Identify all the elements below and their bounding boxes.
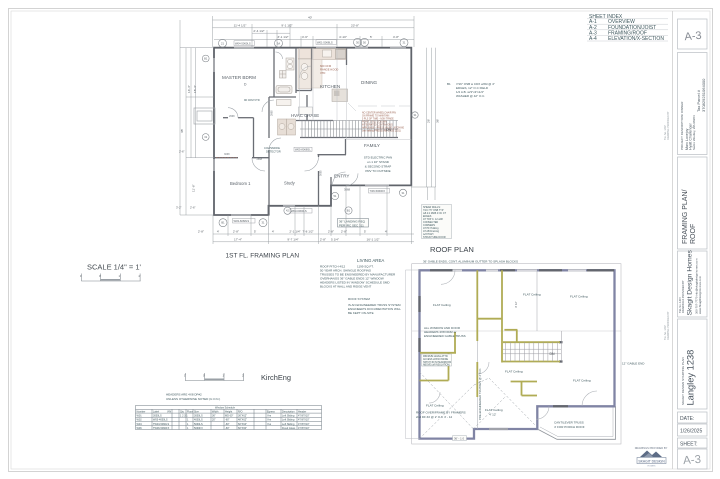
svg-text:SKAGIT DESIGN: SKAGIT DESIGN: [638, 459, 665, 463]
svg-text:HOMES: HOMES: [647, 466, 656, 468]
svg-text:23'-8": 23'-8": [351, 23, 359, 27]
svg-text:APPL BASE - PRESS VALVE LATCHI: APPL BASE - PRESS VALVE LATCHING: [362, 127, 404, 130]
svg-text:4"X8"X10": 4"X8"X10": [298, 419, 310, 422]
svg-text:Fixed Glass: Fixed Glass: [282, 427, 296, 430]
svg-text:BLOCKS AT WALL AND RIDGE VENT: BLOCKS AT WALL AND RIDGE VENT: [320, 285, 372, 289]
svg-text:3068: 3068: [224, 153, 230, 156]
svg-text:NO CENTER WHEELCHAIR PIN: NO CENTER WHEELCHAIR PIN: [362, 112, 396, 115]
svg-text:PRE-ENGINEERED TRUSSES @ 2' O.: PRE-ENGINEERED TRUSSES @ 2' O.C.: [478, 368, 482, 420]
svg-text:Floor: Floor: [187, 410, 193, 413]
svg-text:40': 40': [308, 16, 312, 20]
svg-text:UNLESS OTHERWISE NOTED (U.O.N.: UNLESS OTHERWISE NOTED (U.O.N.): [166, 397, 220, 401]
svg-text:3'-1 1/2": 3'-1 1/2": [277, 35, 288, 39]
svg-text:ACCESS 22X30 INSIDE: ACCESS 22X30 INSIDE: [423, 358, 448, 361]
svg-text:5 1/4": 5 1/4": [331, 237, 339, 241]
svg-text:SKAGIT DESIGN STARTING PLAN: SKAGIT DESIGN STARTING PLAN: [681, 357, 685, 405]
svg-text:3068: 3068: [344, 188, 350, 192]
svg-text:W04-5060LS: W04-5060LS: [235, 41, 251, 45]
svg-text:A-3: A-3: [683, 454, 702, 467]
svg-text:W01: W01: [137, 415, 143, 418]
svg-text:W04: W04: [137, 423, 143, 426]
svg-text:HATCH 30 IN HEADROOM: HATCH 30 IN HEADROOM: [423, 361, 451, 364]
svg-text:ROOF PLAN: ROOF PLAN: [430, 245, 474, 254]
svg-text:26': 26': [427, 119, 431, 123]
svg-text:Number: Number: [137, 410, 146, 413]
svg-text:5060FX: 5060FX: [194, 427, 203, 430]
svg-text:60"X60": 60"X60": [238, 427, 247, 430]
svg-text:7'-8 1/2": 7'-8 1/2": [302, 230, 313, 234]
svg-text:600 CFM: 600 CFM: [320, 64, 332, 68]
svg-text:Header: Header: [298, 410, 306, 413]
svg-text:DRAWING PROVIDED BY: DRAWING PROVIDED BY: [667, 111, 670, 140]
svg-text:ENTRY: ENTRY: [334, 174, 350, 179]
svg-text:11'-4 1/2": 11'-4 1/2": [234, 23, 247, 27]
svg-text:90 CFM VTD: 90 CFM VTD: [244, 98, 260, 102]
svg-text:15'-4": 15'-4": [193, 85, 197, 93]
svg-text:7/06-5060FX: 7/06-5060FX: [370, 189, 386, 193]
svg-text:2'-8": 2'-8": [320, 237, 326, 241]
svg-text:2668: 2668: [270, 110, 273, 116]
svg-text:B1: B1: [221, 221, 225, 225]
svg-text:PRV TO OUTSIDE: PRV TO OUTSIDE: [365, 169, 390, 173]
svg-text:PROJECT DESCRIPTION/ OWNER: PROJECT DESCRIPTION/ OWNER: [680, 101, 684, 150]
svg-text:36' - 1 0: 36' - 1 0: [454, 436, 464, 440]
svg-text:2668: 2668: [257, 158, 263, 161]
svg-text:Label: Label: [153, 410, 160, 413]
svg-text:FLAT Ceiling: FLAT Ceiling: [573, 379, 591, 383]
svg-text:SHEET:: SHEET:: [680, 442, 698, 448]
svg-text:Egress: Egress: [267, 410, 276, 413]
svg-text:VIN: VIN: [167, 410, 171, 413]
svg-text:www.SkagitDesignHomes.com: www.SkagitDesignHomes.com: [698, 275, 702, 314]
svg-text:ELEVATION/X-SECTION: ELEVATION/X-SECTION: [608, 36, 664, 42]
svg-text:SCALE 1/4" = 1': SCALE 1/4" = 1': [87, 263, 141, 272]
svg-text:2'-8": 2'-8": [341, 230, 347, 234]
svg-text:DN: DN: [550, 352, 556, 356]
svg-text:36' GABLE ENDS, CONT. ALUMINUM: 36' GABLE ENDS, CONT. ALUMINUM GUTTER TO…: [423, 259, 518, 263]
svg-text:1 2 3 1: 1 2 3 1: [180, 415, 188, 418]
svg-text:TW04-5060LS: TW04-5060LS: [153, 423, 169, 426]
svg-text:& SECOND STRAP: & SECOND STRAP: [365, 165, 392, 169]
svg-text:MD 60": MD 60": [225, 415, 233, 418]
svg-text:FLAT Ceiling: FLAT Ceiling: [523, 293, 541, 297]
svg-text:Left Sliding: Left Sliding: [282, 415, 295, 418]
svg-text:on 1 16" STAND: on 1 16" STAND: [367, 160, 390, 164]
svg-text:Width: Width: [212, 410, 219, 413]
svg-text:4"X8"X10": 4"X8"X10": [298, 423, 310, 426]
svg-text:B1: B1: [204, 57, 208, 61]
svg-text:STD ELECTRIC PAN: STD ELECTRIC PAN: [364, 156, 392, 160]
svg-text:DRAWINGS PROVIDED BY: DRAWINGS PROVIDED BY: [681, 280, 685, 313]
svg-text:3'-2": 3'-2": [176, 206, 182, 210]
svg-text:W03-6060LS: W03-6060LS: [291, 209, 307, 213]
svg-text:17'-4": 17'-4": [234, 237, 242, 241]
svg-text:MINIMUM LEVEL ATTIC: MINIMUM LEVEL ATTIC: [423, 355, 448, 358]
svg-text:W05-4050LS: W05-4050LS: [153, 419, 168, 422]
svg-text:BE KEPT ON-SITE: BE KEPT ON-SITE: [348, 311, 374, 315]
svg-text:5068: 5068: [320, 170, 323, 176]
svg-text:Window Schedule: Window Schedule: [215, 407, 236, 410]
svg-text:36": 36": [212, 415, 216, 418]
svg-text:2'-6": 2'-6": [179, 150, 185, 154]
svg-text:RANGE HOOD: RANGE HOOD: [320, 68, 338, 72]
svg-text:LIVING AREA: LIVING AREA: [357, 258, 384, 263]
svg-text:3A: 3A: [277, 41, 280, 45]
svg-text:Description: Description: [282, 410, 295, 413]
svg-text:4"X8"X10": 4"X8"X10": [298, 415, 310, 418]
svg-text:4' 12': 4' 12': [489, 413, 497, 417]
svg-text:16'-4": 16'-4": [187, 85, 191, 93]
svg-text:2'-8": 2'-8": [233, 230, 239, 234]
svg-text:-60": -60": [225, 419, 230, 422]
svg-text:4' 12': 4' 12': [514, 301, 518, 308]
svg-text:ON FRAME TO MAINTAIN: ON FRAME TO MAINTAIN: [362, 115, 390, 118]
svg-text:B1: B1: [447, 82, 451, 86]
svg-text:36"X62": 36"X62": [238, 415, 247, 418]
svg-text:W03-6068LS: W03-6068LS: [234, 219, 250, 223]
svg-text:POINT 2 SILL COLUMN: POINT 2 SILL COLUMN: [362, 122, 387, 124]
svg-text:R/O: R/O: [238, 410, 243, 413]
svg-text:16'-1 1/2": 16'-1 1/2": [366, 237, 379, 241]
svg-text:2nd DF #2 @ 2' O.C 4' - 12: 2nd DF #2 @ 2' O.C 4' - 12: [416, 415, 453, 419]
svg-text:Study: Study: [284, 181, 296, 186]
svg-text:W01-5068LS: W01-5068LS: [317, 40, 333, 44]
svg-text:W02: W02: [137, 419, 143, 422]
svg-text:4'-6": 4'-6": [302, 35, 308, 39]
svg-text:DETECTOR: DETECTOR: [266, 149, 281, 153]
svg-text:3050LS: 3050LS: [153, 415, 162, 418]
svg-text:48"X62": 48"X62": [238, 419, 247, 422]
svg-text:W06: W06: [137, 427, 143, 430]
svg-text:4'-8": 4'-8": [393, 35, 399, 39]
svg-text:2'-6": 2'-6": [190, 206, 196, 210]
svg-text:9'-1 1/2": 9'-1 1/2": [281, 23, 292, 27]
svg-text:9'-7 1/4": 9'-7 1/4": [287, 237, 298, 241]
svg-text:ABOVE (off INSULATION): ABOVE (off INSULATION): [423, 364, 450, 367]
svg-text:B1: B1: [347, 209, 351, 213]
svg-text:1/26/2025: 1/26/2025: [680, 429, 702, 435]
svg-text:ENGINEERED GABLE TRUSS: ENGINEERED GABLE TRUSS: [424, 334, 466, 338]
svg-text:FLAT Ceiling: FLAT Ceiling: [485, 408, 503, 412]
svg-text:ROOF OVER/FRAME BY FRAMERS: ROOF OVER/FRAME BY FRAMERS: [416, 411, 466, 415]
svg-text:TW06-5060FX: TW06-5060FX: [153, 427, 170, 430]
svg-text:4' FOR PORCH ROOF: 4' FOR PORCH ROOF: [554, 425, 585, 429]
svg-text:INTEGRATED CONTINUOUS: INTEGRATED CONTINUOUS: [362, 124, 393, 127]
svg-text:4'-10": 4'-10": [339, 35, 347, 39]
svg-text:38': 38': [180, 129, 184, 133]
svg-text:KirchEng: KirchEng: [261, 373, 291, 382]
svg-text:60"X64": 60"X64": [238, 423, 247, 426]
svg-text:A-3: A-3: [684, 30, 702, 43]
svg-text:5060LS: 5060LS: [194, 423, 203, 426]
svg-text:ROOF: ROOF: [690, 224, 697, 244]
svg-text:HVAC CHASE: HVAC CHASE: [291, 113, 319, 118]
svg-text:Langley 1238: Langley 1238: [686, 350, 696, 406]
svg-text:Left Sliding: Left Sliding: [282, 419, 295, 422]
svg-text:-60": -60": [225, 427, 230, 430]
svg-text:2'-1 1/4": 2'-1 1/4": [289, 230, 300, 234]
svg-text:Left Sliding: Left Sliding: [282, 423, 295, 426]
svg-text:(see talking PRESSURE CODE 202: (see talking PRESSURE CODE 2021): [362, 130, 401, 133]
svg-text:Sedro Woolley, WA 98284: Sedro Woolley, WA 98284: [692, 115, 696, 150]
svg-text:36': 36': [436, 119, 440, 123]
svg-text:A-4: A-4: [589, 36, 597, 42]
svg-text:11'-6": 11'-6": [192, 184, 196, 192]
svg-text:Skagit Design Homes: Skagit Design Homes: [687, 250, 694, 316]
svg-text:CANTILEVER TRUSS: CANTILEVER TRUSS: [554, 421, 584, 425]
svg-text:Size: Size: [194, 410, 199, 413]
svg-text:FLAT Ceiling: FLAT Ceiling: [570, 295, 588, 299]
svg-text:VTD: VTD: [320, 71, 325, 75]
svg-text:FLAT Ceiling: FLAT Ceiling: [426, 404, 444, 408]
svg-text:FAMILY: FAMILY: [364, 143, 380, 148]
svg-text:PER IRC SEC 311: PER IRC SEC 311: [339, 223, 364, 227]
svg-text:DINING: DINING: [361, 80, 378, 85]
svg-text:STRUCTURE DOOR: STRUCTURE DOOR: [423, 236, 446, 239]
svg-text:2668: 2668: [229, 115, 235, 118]
svg-text:MASTER BDRM: MASTER BDRM: [222, 75, 256, 80]
svg-text:FLAT Ceiling: FLAT Ceiling: [433, 303, 451, 307]
svg-text:FLAT Ceiling: FLAT Ceiling: [505, 370, 523, 374]
svg-text:-60": -60": [225, 423, 230, 426]
svg-text:370829251064000: 370829251064000: [701, 78, 706, 112]
svg-text:WASHER @ 42" O.C.: WASHER @ 42" O.C.: [456, 94, 485, 98]
svg-text:2'-8": 2'-8": [198, 230, 204, 234]
svg-text:20": 20": [212, 419, 216, 422]
svg-text:4050LS: 4050LS: [194, 419, 203, 422]
svg-text:5 PLS OF TIME - NON TRADE: 5 PLS OF TIME - NON TRADE: [362, 118, 394, 121]
svg-text:FRAMING PLAN/: FRAMING PLAN/: [682, 189, 689, 244]
svg-text:Bedroom 1: Bedroom 1: [230, 181, 251, 186]
svg-text:Height: Height: [225, 410, 233, 413]
svg-text:4"X8"X10": 4"X8"X10": [298, 427, 310, 430]
svg-text:2'-8": 2'-8": [328, 230, 334, 234]
svg-text:DRAWINGS PROVIDED BY: DRAWINGS PROVIDED BY: [635, 446, 668, 450]
svg-text:DATE:: DATE:: [680, 416, 694, 422]
svg-text:KITCHEN: KITCHEN: [320, 84, 340, 89]
svg-text:ROOF SYSTEM: ROOF SYSTEM: [348, 297, 370, 301]
svg-text:2'-4 1/2": 2'-4 1/2": [253, 29, 264, 33]
svg-text:12" GABLE END: 12" GABLE END: [622, 362, 645, 366]
svg-text:DRAWING PROVIDED BY: DRAWING PROVIDED BY: [667, 311, 670, 340]
svg-text:W05-8068SL: W05-8068SL: [295, 148, 311, 152]
svg-text:1ST FL. FRAMING PLAN: 1ST FL. FRAMING PLAN: [226, 253, 300, 260]
svg-text:3050LS: 3050LS: [194, 415, 203, 418]
